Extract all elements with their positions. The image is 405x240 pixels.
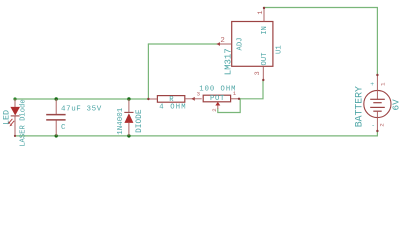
U1 OUT pin lead	[262, 66, 264, 80]
junction diode bottom	[127, 134, 130, 137]
capacitor C plates	[46, 114, 65, 116]
pin end dot POT right	[238, 98, 240, 100]
svg-text:1: 1	[257, 11, 265, 15]
junction diode top	[127, 97, 130, 100]
battery internal bottom stub	[376, 111, 378, 117]
svg-text:U1: U1	[275, 45, 283, 54]
resistor R body	[157, 96, 184, 103]
svg-text:BATTERY: BATTERY	[354, 86, 365, 127]
svg-text:LM317: LM317	[224, 48, 234, 75]
battery top pin lead	[376, 75, 378, 90]
pin end dot OUT	[262, 79, 264, 81]
U1 IN pin lead	[263, 8, 265, 22]
POT wiper arrow	[215, 102, 220, 106]
svg-text:3: 3	[254, 71, 262, 75]
svg-text:1N4001: 1N4001	[117, 107, 125, 135]
LED emission arrows	[8, 119, 15, 127]
diode D2 cathode bar	[124, 111, 133, 113]
pin end dot battery bottom	[376, 130, 378, 132]
junction cap top	[55, 97, 58, 100]
IC U1 LM317 body	[232, 22, 273, 67]
svg-text:OUT: OUT	[261, 52, 269, 66]
wire IN to battery top	[264, 7, 377, 9]
wire ADJ vertical	[147, 44, 149, 99]
svg-text:DIODE: DIODE	[136, 109, 144, 133]
wire top rail LED to R	[15, 98, 148, 100]
svg-text:IN: IN	[261, 26, 269, 35]
junction cap bottom	[55, 134, 58, 137]
resistor R leads	[148, 98, 157, 100]
svg-text:LED: LED	[1, 110, 11, 125]
battery plate long 2	[370, 106, 385, 108]
diode D2 1N4001 leads	[128, 99, 130, 112]
junction LED top corner	[13, 97, 16, 100]
pin end marker R right / POT pin3 arrow	[191, 97, 195, 101]
svg-text:1: 1	[233, 90, 237, 97]
pin end dot R left	[147, 98, 149, 100]
wire ADJ horizontal	[148, 43, 217, 45]
svg-text:2: 2	[378, 123, 385, 127]
svg-text:ADJ: ADJ	[236, 38, 244, 51]
POT right lead	[231, 98, 239, 100]
battery B1 circle	[364, 90, 391, 117]
svg-text:POT: POT	[210, 95, 225, 103]
battery bottom pin lead	[376, 118, 378, 131]
svg-text:LASER Diode: LASER Diode	[20, 99, 28, 146]
svg-text:6V: 6V	[391, 99, 402, 111]
pin end dot battery top	[376, 74, 378, 76]
diode D2 triangle	[124, 113, 133, 123]
capacitor C leads	[55, 99, 57, 114]
svg-text:2: 2	[220, 37, 224, 45]
battery plate short 1	[373, 102, 381, 104]
LED D1 laser diode symbol	[10, 99, 20, 137]
pin end dot IN	[263, 7, 265, 9]
svg-text:100 OHM: 100 OHM	[199, 86, 236, 94]
wire battery bottom stub	[376, 131, 378, 136]
wire bottom rail	[15, 135, 377, 137]
U1 ADJ pin lead	[218, 43, 232, 45]
svg-text:-: -	[371, 122, 375, 129]
potentiometer POT body	[203, 95, 230, 102]
svg-text:47uF 35V: 47uF 35V	[61, 106, 102, 114]
battery internal top stub	[376, 90, 378, 99]
battery plate long 1	[370, 98, 385, 100]
svg-text:3: 3	[197, 90, 201, 97]
svg-text:+: +	[370, 81, 374, 88]
pin end dot ADJ arrow	[216, 42, 220, 46]
svg-text:1: 1	[380, 82, 387, 86]
wire OUT down to POT pin1	[239, 80, 263, 99]
svg-text:4 OHM: 4 OHM	[159, 104, 187, 112]
svg-text:2: 2	[211, 108, 218, 112]
wire battery right vertical	[376, 8, 378, 76]
svg-text:C: C	[61, 124, 66, 132]
wire POT wiper loop	[218, 99, 240, 113]
battery plate short 2	[373, 110, 381, 112]
